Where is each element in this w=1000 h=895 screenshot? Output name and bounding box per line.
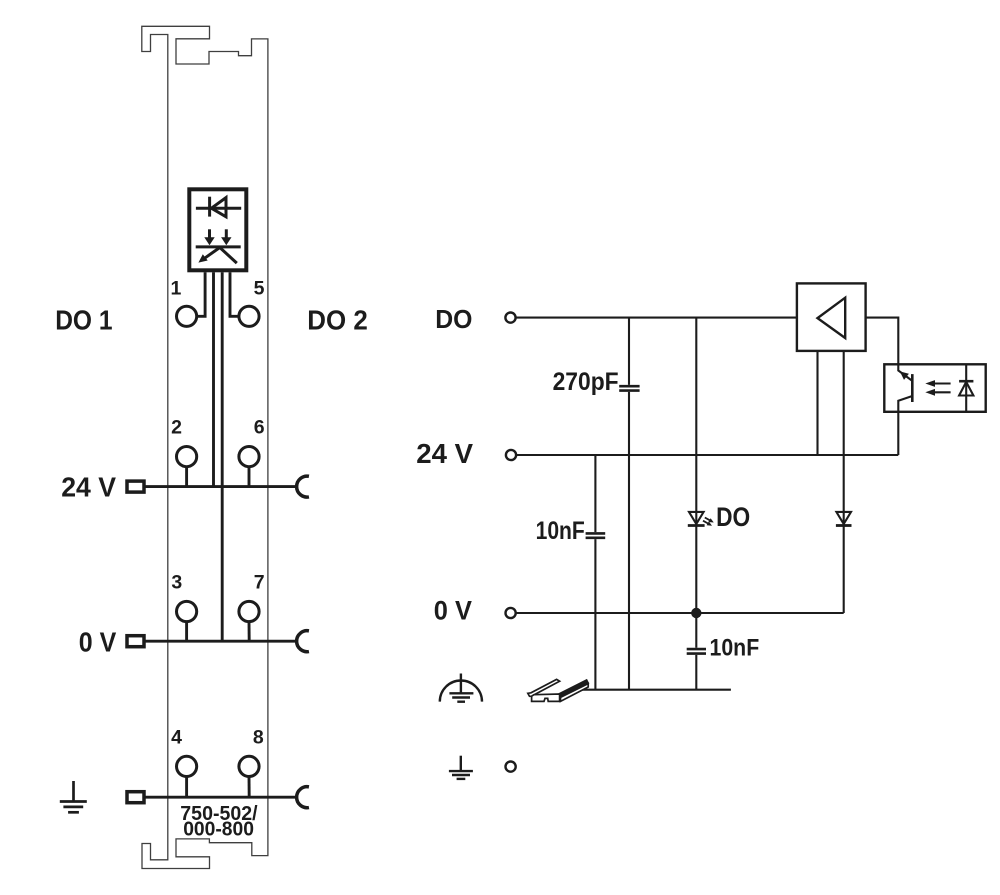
24V right contact arc: [297, 476, 309, 497]
earth ground symbol: [449, 756, 473, 779]
terminal 4: [177, 756, 197, 776]
wire amp right leg through diode to 0V: [843, 351, 845, 613]
DIN rail 3D symbol: [528, 679, 588, 701]
svg-text:270pF: 270pF: [553, 368, 619, 396]
svg-text:5: 5: [254, 277, 265, 299]
LED indicator box U1: [189, 189, 246, 270]
optocoupler LED diode: [965, 364, 967, 412]
phototransistor: [911, 374, 914, 402]
LED light arrows: [705, 518, 711, 521]
svg-text:DO 1: DO 1: [55, 304, 112, 335]
0V bus wire: [146, 640, 297, 643]
terminal 5: [239, 306, 259, 326]
junction node at 0V: [691, 608, 701, 618]
svg-text:2: 2: [171, 416, 182, 438]
24V connector square: [127, 481, 144, 492]
terminal 6: [239, 447, 259, 467]
node 0V open circle: [506, 608, 516, 618]
wire chassis rail line: [577, 689, 731, 691]
node 24V open circle: [506, 450, 516, 460]
wire DO line: [516, 317, 797, 319]
svg-text:DO 2: DO 2: [307, 304, 368, 335]
svg-text:000-800: 000-800: [183, 819, 254, 841]
amplifier triangle: [818, 298, 846, 338]
ground symbol left of bottom bus: [60, 781, 87, 812]
0V connector square: [127, 636, 144, 647]
LED DO indicator: [689, 512, 704, 524]
wire optocoupler emitter to 24V: [897, 412, 899, 455]
wire from LED box to 0V bus: [221, 272, 224, 641]
capacitor 270pF on DO branch: [628, 318, 630, 385]
capacitor 10nF lower: [687, 648, 706, 651]
wire 0V line: [516, 612, 844, 614]
diode D1 inside LED box (pointing left): [196, 197, 241, 217]
svg-text:6: 6: [254, 416, 265, 438]
terminal 3: [177, 601, 197, 621]
terminal 7: [239, 601, 259, 621]
svg-text:10nF: 10nF: [710, 635, 760, 662]
chassis ground symbol with arc: [440, 674, 482, 702]
wire amp output to optocoupler: [866, 318, 899, 365]
node DO open circle: [505, 313, 515, 323]
terminal 1: [177, 306, 197, 326]
svg-text:0 V: 0 V: [79, 627, 117, 658]
svg-text:3: 3: [171, 571, 182, 593]
0V right contact arc: [297, 631, 309, 652]
svg-text:8: 8: [253, 727, 264, 749]
svg-text:24 V: 24 V: [416, 438, 473, 469]
node open circle bottom: [506, 762, 516, 772]
svg-text:24 V: 24 V: [61, 472, 116, 503]
ground connector square: [127, 792, 144, 803]
ground right contact arc: [297, 787, 309, 808]
svg-text:10nF: 10nF: [536, 517, 585, 545]
amplifier U2 box: [797, 283, 866, 351]
svg-text:7: 7: [254, 571, 265, 593]
terminal 2: [177, 447, 197, 467]
capacitor 10nF on 24V branch: [594, 455, 596, 532]
wire DO-LED branch: [695, 318, 697, 648]
module 750-502 outline: [142, 26, 268, 868]
diode on amp right leg: [836, 512, 851, 524]
wire from LED box to terminal 5: [230, 272, 239, 316]
stem terminal 7 to 0V bus: [248, 622, 251, 642]
svg-text:1: 1: [170, 277, 181, 299]
optocoupler light arrows: [933, 382, 951, 384]
wire from LED box to 24V bus: [212, 272, 215, 486]
wire 24V line: [517, 454, 899, 456]
stem terminal 6 to 24V bus: [248, 466, 251, 486]
wire from LED box to terminal 1: [197, 272, 206, 316]
svg-text:0 V: 0 V: [434, 595, 472, 625]
svg-text:DO: DO: [716, 502, 750, 532]
stem terminal 4 to ground bus: [185, 777, 188, 798]
stem terminal 8 to ground bus: [248, 777, 251, 798]
terminal 8: [239, 756, 259, 776]
24V bus wire: [146, 485, 297, 488]
svg-text:4: 4: [171, 727, 182, 749]
optocoupler U3 box: [884, 364, 985, 412]
wire amp to 24V (left leg): [816, 351, 818, 455]
stem terminal 2 to 24V bus: [185, 466, 188, 486]
ground bus wire: [146, 796, 297, 799]
svg-text:DO: DO: [435, 304, 472, 334]
stem terminal 3 to 0V bus: [185, 622, 188, 642]
suppressor symbol inside LED box: [196, 229, 241, 263]
